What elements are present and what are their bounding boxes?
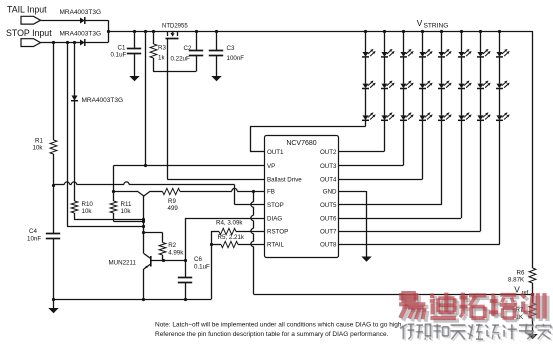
svg-text:RTAIL: RTAIL — [267, 241, 285, 248]
svg-text:FB: FB — [267, 188, 275, 195]
svg-text:R2: R2 — [168, 242, 176, 249]
svg-text:MRA4003T3G: MRA4003T3G — [60, 9, 102, 16]
svg-text:0.22uF: 0.22uF — [171, 56, 190, 63]
svg-text:MRA4003T3G: MRA4003T3G — [82, 97, 124, 104]
svg-text:C6: C6 — [194, 256, 202, 263]
svg-text:10nF: 10nF — [27, 235, 41, 242]
svg-text:4.99k: 4.99k — [168, 249, 184, 256]
svg-text:R5, 2.21k: R5, 2.21k — [218, 234, 245, 241]
svg-text:Reference the pin function des: Reference the pin function description t… — [155, 331, 389, 338]
svg-text:MRA4003T3G: MRA4003T3G — [60, 31, 102, 38]
svg-text:10k: 10k — [33, 145, 44, 152]
svg-text:NTD2955: NTD2955 — [162, 23, 188, 29]
svg-text:C1: C1 — [118, 45, 126, 52]
svg-text:OUT5: OUT5 — [320, 202, 337, 209]
svg-text:Ballast Drive: Ballast Drive — [267, 176, 302, 183]
svg-text:10k: 10k — [82, 208, 93, 215]
svg-text:OUT3: OUT3 — [320, 163, 337, 170]
svg-text:C2: C2 — [184, 45, 192, 52]
svg-text:VP: VP — [267, 163, 275, 170]
svg-text:OUT1: OUT1 — [267, 149, 284, 156]
svg-text:STRING: STRING — [424, 22, 449, 29]
svg-text:C3: C3 — [227, 45, 235, 52]
svg-text:STOP: STOP — [267, 202, 284, 209]
svg-text:10k: 10k — [121, 208, 132, 215]
svg-text:1k: 1k — [158, 55, 165, 62]
svg-text:GND: GND — [323, 188, 337, 195]
svg-text:OUT4: OUT4 — [320, 176, 337, 183]
svg-text:Note: Latch−off will be implem: Note: Latch−off will be implemented unde… — [155, 322, 403, 329]
svg-text:0.1uF: 0.1uF — [111, 52, 127, 59]
svg-text:MUN2211: MUN2211 — [109, 260, 137, 267]
svg-text:V: V — [417, 18, 423, 28]
svg-text:R3: R3 — [158, 45, 166, 52]
svg-text:R6: R6 — [517, 269, 525, 276]
svg-text:100nF: 100nF — [227, 55, 245, 62]
svg-text:R11: R11 — [121, 201, 132, 208]
svg-text:C4: C4 — [29, 228, 37, 235]
svg-text:OUT8: OUT8 — [320, 241, 337, 248]
svg-text:OUT7: OUT7 — [320, 228, 337, 235]
svg-text:499: 499 — [168, 205, 179, 212]
svg-text:R10: R10 — [82, 201, 94, 208]
svg-text:R4, 3.09k: R4, 3.09k — [216, 220, 243, 227]
svg-text:NCV7680: NCV7680 — [286, 140, 316, 147]
svg-text:0.1uF: 0.1uF — [194, 264, 210, 271]
svg-text:DIAG: DIAG — [267, 215, 282, 222]
svg-text:RSTOP: RSTOP — [267, 228, 288, 235]
svg-text:OUT2: OUT2 — [320, 149, 337, 156]
svg-text:R9: R9 — [168, 198, 176, 205]
svg-text:TAIL Input: TAIL Input — [7, 4, 47, 14]
svg-text:OUT6: OUT6 — [320, 215, 337, 222]
svg-text:R1: R1 — [35, 138, 43, 145]
svg-text:8.87K: 8.87K — [508, 277, 525, 284]
svg-text:STOP Input: STOP Input — [6, 28, 52, 38]
